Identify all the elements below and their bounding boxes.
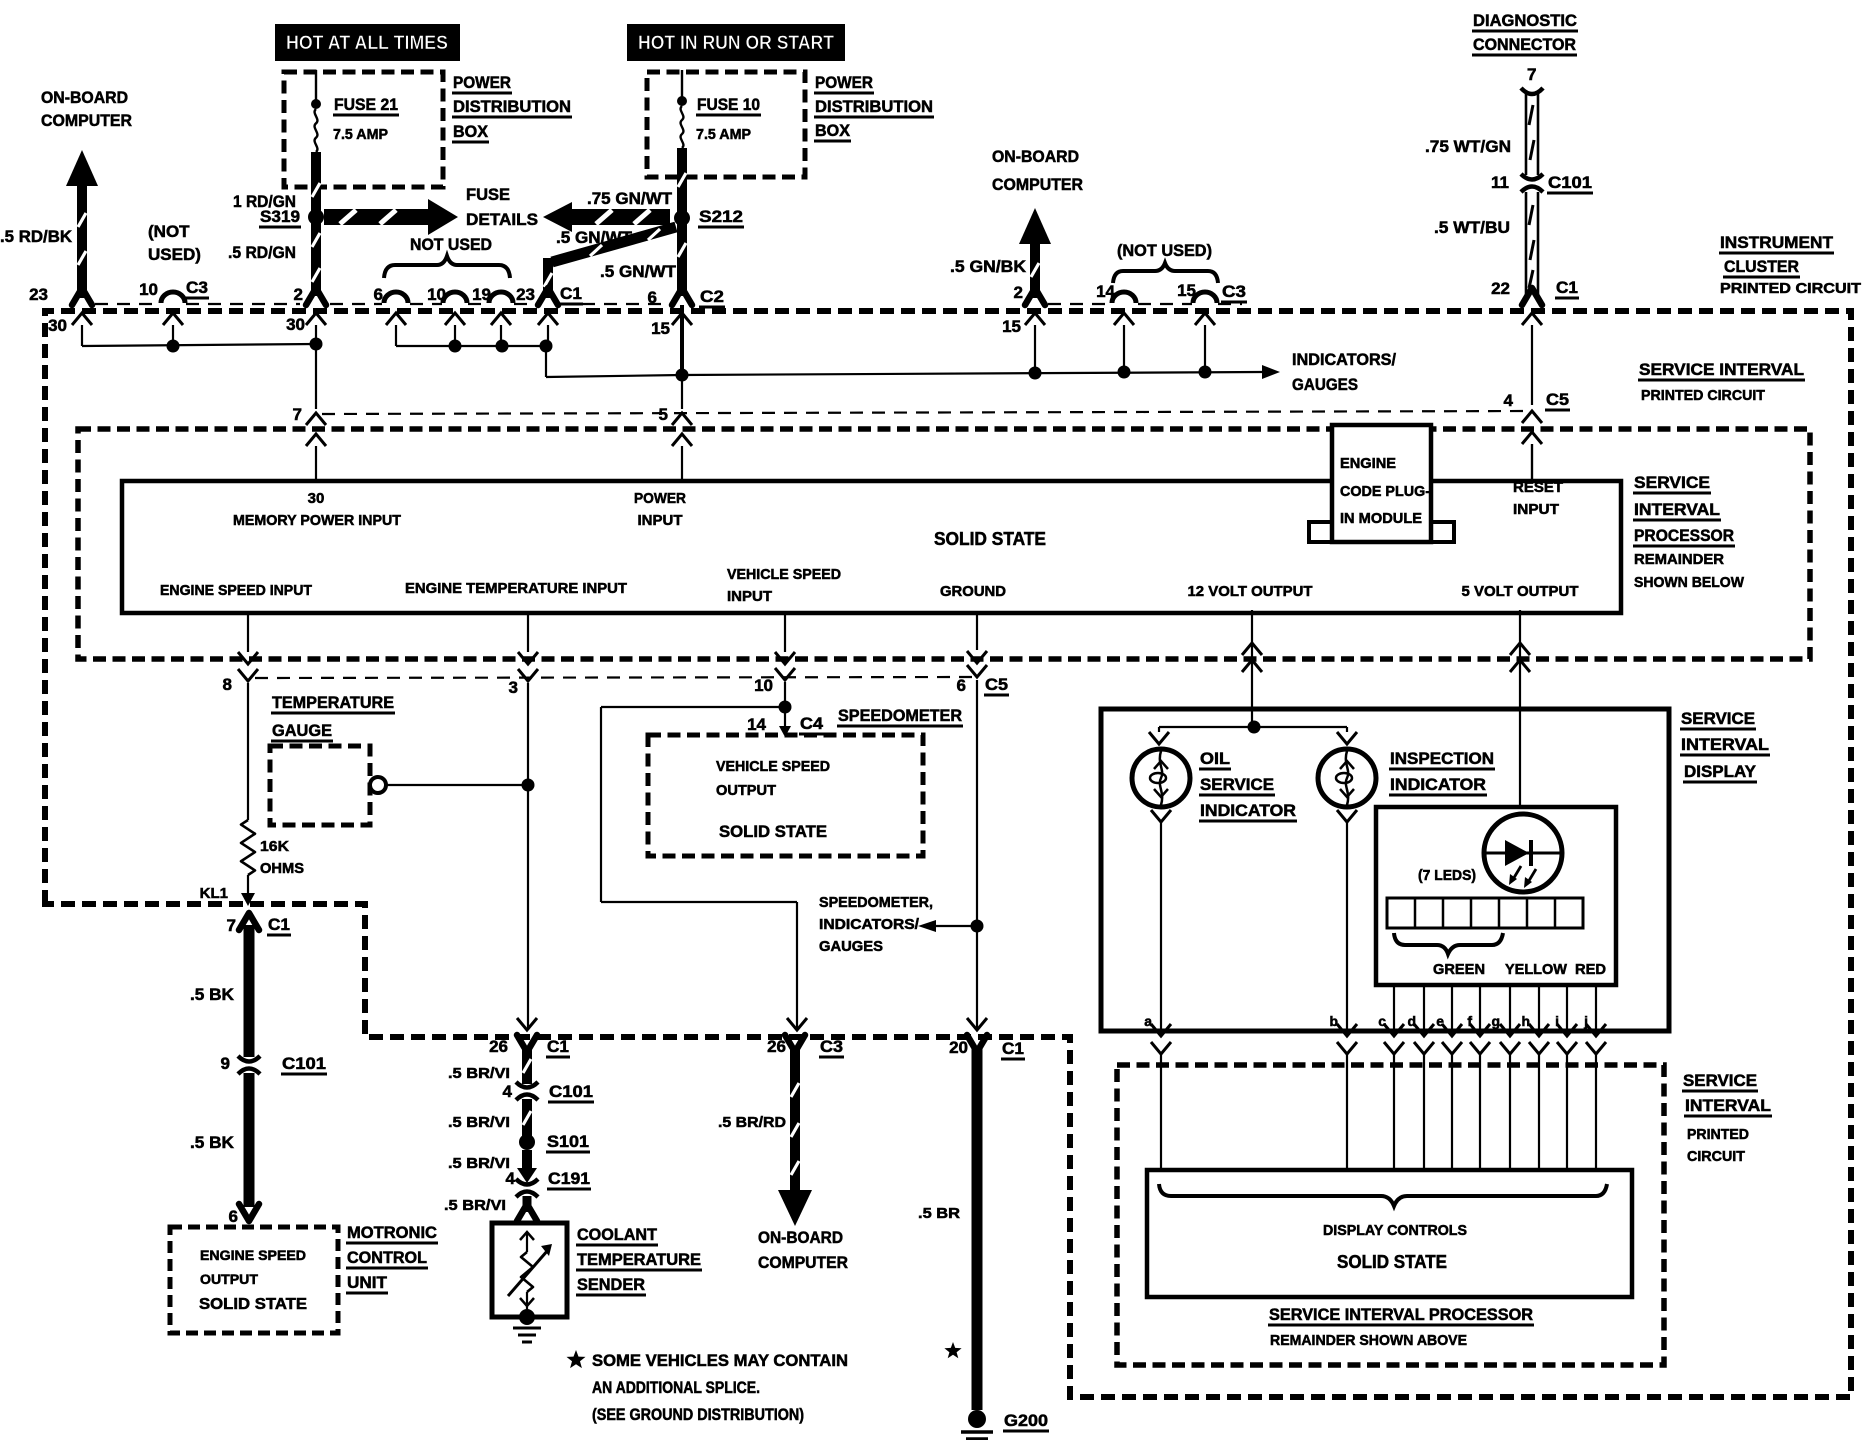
power distribution box (fuse 21) dashed box [284,72,443,187]
svg-text:(SEE GROUND DISTRIBUTION): (SEE GROUND DISTRIBUTION) [592,1405,804,1424]
junction to speedometer/indicators/gauges [971,920,984,933]
pin 4 C5 arrow into service interval processor [1522,411,1542,423]
svg-text:2: 2 [1014,283,1023,302]
pin 7 C1 flare [239,913,259,930]
pin 20 C1 flare (ground wire) [967,1035,987,1052]
service interval processor dashed border (lower) [1117,1065,1664,1365]
svg-text:23: 23 [29,285,48,304]
svg-text:GREEN: GREEN [1433,961,1485,978]
fuse 10 [681,70,683,100]
svg-text:BOX: BOX [453,122,489,141]
svg-text:7: 7 [293,405,302,424]
svg-text:FUSE 21: FUSE 21 [334,95,398,114]
svg-text:S212: S212 [699,207,743,226]
svg-text:PRINTED CIRCUIT: PRINTED CIRCUIT [1641,387,1765,404]
svg-text:ENGINE SPEED INPUT: ENGINE SPEED INPUT [160,582,312,599]
svg-text:14: 14 [747,715,766,734]
svg-text:4: 4 [1504,391,1514,410]
brace not used pins [384,256,510,278]
svg-text:d: d [1407,1013,1416,1029]
wire bus 30 left [82,344,316,346]
arrow into cluster pin 14 [1114,313,1134,325]
arrow into cluster pin 10 [445,313,465,325]
arrow into cluster pin 22 C1 [1522,313,1542,325]
pin 26 C1 flare (engine temperature) [517,1035,537,1052]
fuse 21 [315,70,317,102]
svg-text:.75 GN/WT: .75 GN/WT [587,189,673,208]
wire ground pin 6 C5 [976,613,978,650]
sender ground [519,1309,535,1325]
inspection indicator lamp [1318,749,1376,807]
svg-text:30: 30 [286,315,305,334]
svg-text:C5: C5 [985,675,1008,694]
svg-text:7.5 AMP: 7.5 AMP [696,126,751,143]
wire from pin 23 C1 bus down to 15 bus [545,346,547,377]
terminal KL1 arrowhead [241,893,255,906]
svg-text:FUSE 10: FUSE 10 [697,95,760,114]
svg-text:(NOT USED): (NOT USED) [1117,241,1212,260]
svg-text:22: 22 [1491,279,1510,298]
coolant temperature sender box [492,1223,567,1317]
svg-text:SOLID STATE: SOLID STATE [719,822,827,841]
svg-text:INTERVAL: INTERVAL [1634,500,1720,519]
svg-text:YELLOW: YELLOW [1505,961,1568,978]
svg-text:C4: C4 [800,714,824,733]
wire bus not-used pins [396,345,546,347]
svg-text:SOLID STATE: SOLID STATE [199,1296,307,1313]
wires c-j from LED display [1393,985,1395,1031]
svg-text:ENGINE: ENGINE [1340,455,1396,472]
svg-text:VEHICLE SPEED: VEHICLE SPEED [727,566,841,583]
svg-text:REMAINDER: REMAINDER [1634,551,1724,568]
svg-text:.5 RD/BK: .5 RD/BK [0,227,73,246]
pin 6 flare into motronic [239,1204,259,1221]
svg-text:7: 7 [1527,65,1536,84]
svg-text:SPEEDOMETER,: SPEEDOMETER, [819,894,933,911]
svg-text:C191: C191 [548,1169,590,1188]
svg-text:OUTPUT: OUTPUT [716,782,776,799]
splice S212 [674,210,690,226]
svg-text:HOT IN RUN OR START: HOT IN RUN OR START [638,33,834,54]
svg-text:SERVICE: SERVICE [1634,473,1710,492]
LED symbol circle [1484,814,1562,892]
fuse details arrow left [543,202,572,232]
wire gauge to engine temperature line [386,784,522,786]
svg-text:C3: C3 [1222,282,1246,301]
svg-text:ENGINE SPEED: ENGINE SPEED [200,1247,306,1263]
brace green LEDs [1394,933,1503,954]
svg-text:C1: C1 [547,1037,569,1056]
connector C101 pin 11 [1521,174,1543,192]
svg-text:SERVICE INTERVAL PROCESSOR: SERVICE INTERVAL PROCESSOR [1269,1305,1533,1324]
speedometer dashed box [648,735,923,856]
svg-text:C3: C3 [186,278,208,297]
svg-text:SERVICE: SERVICE [1683,1071,1757,1090]
wire .75 GN/WT from fuse 10 [677,148,687,296]
svg-text:PRINTED: PRINTED [1687,1126,1749,1143]
svg-text:.5 BK: .5 BK [190,985,235,1004]
svg-text:CLUSTER: CLUSTER [1724,257,1799,276]
connector C5 dashed cavity line (upper) [322,411,1532,414]
svg-text:GAUGES: GAUGES [1292,375,1358,394]
svg-text:ENGINE TEMPERATURE INPUT: ENGINE TEMPERATURE INPUT [405,580,627,597]
arrow into cluster pin 6 [386,313,406,325]
svg-text:j: j [1583,1013,1588,1029]
svg-text:11: 11 [1491,173,1509,192]
brace not used pins right [1113,263,1218,283]
svg-text:TEMPERATURE: TEMPERATURE [272,693,394,712]
svg-text:POWER: POWER [453,73,511,92]
svg-text:ON-BOARD: ON-BOARD [758,1228,843,1247]
svg-text:INPUT: INPUT [727,588,772,605]
svg-text:C3: C3 [820,1037,843,1056]
star note [567,1350,586,1368]
sender internal wire and variable resistor [520,1232,534,1240]
wire lamp b down [1346,822,1348,1031]
wire lamp feed bus [1159,726,1347,728]
gauge output terminal circle [370,777,386,793]
svg-text:FUSE: FUSE [466,185,510,204]
svg-text:(NOT: (NOT [148,222,190,241]
connector C101 pin 9 [236,1057,262,1072]
power distribution box (fuse 10) dashed box [647,72,805,177]
wire pin2/30 down to service interval pin 7 [315,344,317,409]
svg-text:26: 26 [767,1037,786,1056]
svg-text:.5 BR/RD: .5 BR/RD [718,1114,786,1131]
wire lamp a down [1160,822,1162,1031]
svg-text:INDICATOR: INDICATOR [1200,801,1296,820]
wire .5 GN/BK to on-board computer (arrow up) [1019,208,1051,244]
svg-text:REMAINDER SHOWN ABOVE: REMAINDER SHOWN ABOVE [1270,1332,1467,1349]
svg-text:g: g [1491,1013,1500,1029]
svg-text:COMPUTER: COMPUTER [992,175,1083,194]
svg-text:.5 BR/VI: .5 BR/VI [444,1197,506,1214]
svg-text:IN MODULE: IN MODULE [1340,510,1422,527]
svg-text:e: e [1436,1013,1444,1029]
svg-text:HOT AT ALL TIMES: HOT AT ALL TIMES [286,33,448,54]
svg-text:.5 GN/WT: .5 GN/WT [600,262,677,281]
svg-text:UNIT: UNIT [347,1273,388,1292]
svg-text:MEMORY POWER INPUT: MEMORY POWER INPUT [233,512,401,529]
svg-text:30: 30 [308,490,325,507]
svg-text:SENDER: SENDER [577,1275,645,1294]
wire .5 BR/VI with connectors to coolant sender [522,1048,532,1084]
svg-text:c: c [1378,1013,1386,1029]
svg-text:ON-BOARD: ON-BOARD [41,88,128,107]
LED diode symbol [1486,852,1560,855]
svg-text:SERVICE: SERVICE [1681,709,1755,728]
svg-text:15: 15 [651,319,670,338]
svg-text:.5 WT/BU: .5 WT/BU [1434,218,1510,237]
wire engine speed output pin 8 [247,613,249,652]
pin 2 flare (fuse 21 wire) [306,288,326,305]
svg-text:SOLID STATE: SOLID STATE [934,529,1046,549]
svg-text:b: b [1329,1013,1338,1029]
svg-text:SOLID STATE: SOLID STATE [1337,1252,1447,1272]
svg-text:INPUT: INPUT [638,512,683,529]
svg-text:6: 6 [229,1207,238,1226]
label box HOT IN RUN OR START [627,24,845,61]
svg-text:a: a [1144,1013,1152,1029]
splice S319 [308,209,324,225]
oil service indicator lamp [1132,749,1190,807]
svg-text:PRINTED CIRCUIT: PRINTED CIRCUIT [1720,280,1861,297]
svg-text:15: 15 [1177,281,1196,300]
wire 1 RD/GN from fuse 21 [311,152,321,296]
service interval display solid box [1101,709,1669,1031]
svg-text:C1: C1 [560,284,582,303]
svg-text:POWER: POWER [634,490,686,507]
svg-text:SPEEDOMETER: SPEEDOMETER [838,706,962,725]
svg-text:GAUGES: GAUGES [819,938,883,955]
svg-text:C1: C1 [268,915,290,934]
svg-text:BOX: BOX [815,121,851,140]
wire reset input [1531,444,1533,479]
connector C5 dashed cavity line (lower) [255,677,975,678]
service interval processor solid-state box [122,481,1621,613]
svg-text:INTERVAL: INTERVAL [1681,735,1769,754]
svg-text:ON-BOARD: ON-BOARD [992,147,1079,166]
pin 26 C3 flare (vehicle speed to on-board computer) [785,1035,805,1052]
wire vehicle speed pin 10 [784,613,786,652]
svg-text:INPUT: INPUT [1513,501,1559,518]
svg-text:.5 BR/VI: .5 BR/VI [448,1155,510,1172]
svg-text:KL1: KL1 [200,885,228,902]
svg-text:C101: C101 [549,1082,593,1101]
wire 12 volt output [1251,610,1253,727]
thin dashed cavity line segments [95,303,160,305]
svg-text:SHOWN BELOW: SHOWN BELOW [1634,574,1745,591]
svg-text:19: 19 [472,285,491,304]
svg-text:INTERVAL: INTERVAL [1685,1096,1771,1115]
display controls solid-state box [1147,1170,1632,1297]
arrow into cluster pin 2 (right) [1025,313,1045,325]
pin 2 flare (on-board computer 2) [1025,288,1045,305]
svg-text:DISPLAY CONTROLS: DISPLAY CONTROLS [1323,1222,1467,1239]
svg-text:RESET: RESET [1513,479,1563,496]
svg-text:INDICATOR: INDICATOR [1390,775,1486,794]
svg-text:.5 RD/GN: .5 RD/GN [228,243,296,262]
svg-text:S319: S319 [260,207,300,226]
pin 10 cavity bump [443,292,467,303]
svg-text:12 VOLT OUTPUT: 12 VOLT OUTPUT [1188,583,1313,600]
pin 14 C4 arrow into speedometer [784,707,786,728]
svg-text:.5 BR/VI: .5 BR/VI [448,1114,510,1131]
node pin 23 C3 flare [72,288,92,305]
svg-text:DISTRIBUTION: DISTRIBUTION [453,97,571,116]
splice S101 [519,1134,535,1150]
pin 19 cavity bump [489,292,513,303]
svg-text:i: i [1555,1013,1559,1029]
resistor 16K OHMS [241,820,255,875]
svg-text:POWER: POWER [815,73,873,92]
svg-text:4: 4 [503,1082,513,1101]
svg-text:30: 30 [48,316,67,335]
svg-text:CONNECTOR: CONNECTOR [1473,35,1576,54]
svg-text:INSPECTION: INSPECTION [1390,749,1494,768]
svg-text:.5 BR: .5 BR [918,1205,960,1222]
arrow into oil service indicator [1149,732,1169,744]
wire engine temperature pin 3 [527,613,529,652]
svg-text:SERVICE INTERVAL: SERVICE INTERVAL [1639,360,1804,379]
svg-text:C5: C5 [1546,390,1569,409]
svg-text:14: 14 [1096,282,1115,301]
svg-text:RED: RED [1575,961,1606,978]
temperature gauge dashed box [270,746,370,825]
diagnostic connector pin 7 bracket [1521,88,1543,94]
svg-text:9: 9 [221,1054,230,1073]
motronic control unit dashed box [170,1227,338,1333]
svg-text:23: 23 [516,285,535,304]
svg-text:.5 GN/WT: .5 GN/WT [556,228,633,247]
pin 6 C2 flare (fuse 10 wire) [672,288,692,305]
svg-text:USED): USED) [148,245,201,264]
svg-text:6: 6 [374,285,383,304]
svg-text:6: 6 [957,676,966,695]
svg-text:C1: C1 [1002,1039,1024,1058]
wire .5 BK heavy [244,925,255,1061]
engine code plug-in module [1309,522,1332,542]
svg-text:PROCESSOR: PROCESSOR [1634,526,1734,545]
svg-text:3: 3 [509,678,518,697]
svg-text:6: 6 [648,288,657,307]
svg-text:C2: C2 [700,287,724,306]
wire bus 15 to indicators/gauges arrow [676,369,689,382]
svg-text:(7 LEDS): (7 LEDS) [1418,867,1476,884]
svg-text:8: 8 [223,675,232,694]
svg-text:10: 10 [139,280,158,299]
svg-text:.5 GN/BK: .5 GN/BK [950,257,1027,276]
svg-text:C101: C101 [1548,173,1592,192]
arrow into cluster pin 10 C3 [163,313,183,325]
pin 7 arrow into service interval processor [306,413,326,425]
pin 22 C1 flare (diagnostic wire) [1522,288,1542,305]
svg-text:OUTPUT: OUTPUT [200,1271,258,1287]
wire .5 GN/WT diagonal from S212 to C1 pin 23 [552,227,676,262]
svg-text:DIAGNOSTIC: DIAGNOSTIC [1473,11,1577,30]
arrows a-j through display box bottom [1151,1024,1171,1036]
svg-text:INDICATORS/: INDICATORS/ [819,916,920,933]
svg-text:TEMPERATURE: TEMPERATURE [577,1250,701,1269]
svg-text:INSTRUMENT: INSTRUMENT [1720,233,1834,252]
svg-text:SOME VEHICLES MAY CONTAIN: SOME VEHICLES MAY CONTAIN [592,1351,848,1370]
LED bar display 7 segments [1387,898,1583,928]
svg-text:15: 15 [1002,317,1021,336]
svg-text:16K: 16K [260,838,289,855]
pin 15 cavity bump [1193,292,1217,303]
service interval processor dashed border (upper) [78,429,1810,659]
arrow into cluster pin 19 [491,313,511,325]
svg-text:OHMS: OHMS [260,860,304,877]
svg-text:CODE PLUG-: CODE PLUG- [1340,483,1430,500]
wire vehicle speed loop around speedometer [601,706,785,708]
svg-text:.5 BK: .5 BK [190,1133,235,1152]
svg-text:2: 2 [294,285,303,304]
svg-text:MOTRONIC: MOTRONIC [347,1223,437,1242]
wire .5 RD/BK to on-board computer (arrow up) [66,150,98,186]
label box HOT AT ALL TIMES [275,24,460,61]
wire .5 BR/RD arrow down to on-board computer [790,1048,800,1192]
fuse details arrow right [324,209,428,225]
arrow into inspection indicator [1337,732,1357,744]
svg-text:CIRCUIT: CIRCUIT [1687,1148,1745,1165]
svg-text:AN ADDITIONAL SPLICE.: AN ADDITIONAL SPLICE. [592,1378,760,1397]
svg-text:DISTRIBUTION: DISTRIBUTION [815,97,933,116]
pin 5 arrow into service interval processor [672,413,692,425]
svg-text:20: 20 [949,1038,968,1057]
svg-text:10: 10 [427,285,446,304]
svg-text:VEHICLE SPEED: VEHICLE SPEED [716,758,830,775]
svg-text:26: 26 [489,1037,508,1056]
svg-text:C101: C101 [282,1054,326,1073]
svg-text:INDICATORS/: INDICATORS/ [1292,350,1396,369]
svg-text:CONTROL: CONTROL [347,1248,427,1267]
pin 14 cavity bump [1112,292,1136,303]
brace display controls inputs [1159,1184,1607,1206]
wire .5 WT/BU (outlined) [1525,192,1528,296]
svg-text:4: 4 [506,1169,516,1188]
svg-text:COMPUTER: COMPUTER [758,1253,848,1272]
arrow into cluster pin 2 [306,313,326,325]
svg-text:DISPLAY: DISPLAY [1684,762,1757,781]
svg-text:DETAILS: DETAILS [466,210,538,229]
pin 23 C1 flare [538,288,558,305]
svg-text:OIL: OIL [1200,749,1230,768]
svg-text:GAUGE: GAUGE [272,721,332,740]
svg-text:7: 7 [227,916,236,935]
svg-text:10: 10 [754,676,773,695]
arrow into cluster pin 6 C2 [672,313,692,325]
arrow into cluster pin 23 [72,313,92,325]
pin 10 C3 cavity bump [161,292,185,303]
LED display inner box [1376,807,1616,985]
wire .75 WT/GN (outlined) [1525,93,1528,175]
wire .5 BR heavy to ground G200 [972,1048,983,1410]
svg-text:5: 5 [659,405,668,424]
pin 6 cavity bump [384,292,408,303]
arrow into cluster pin 23 C1 [538,313,558,325]
svg-text:.5 BR/VI: .5 BR/VI [448,1065,510,1082]
svg-text:S101: S101 [547,1132,589,1151]
svg-text:GROUND: GROUND [940,583,1006,600]
arrow into cluster pin 15 [1195,313,1215,325]
wire pin C2 down to service interval pin 5 [681,381,683,409]
svg-text:h: h [1521,1013,1530,1029]
svg-text:SERVICE: SERVICE [1200,775,1274,794]
svg-text:f: f [1467,1013,1472,1029]
svg-text:NOT USED: NOT USED [410,235,492,254]
svg-text:G200: G200 [1004,1411,1048,1430]
wire 5 volt output [1519,610,1521,807]
svg-text:C1: C1 [1556,278,1578,297]
LED emission arrows [1512,866,1521,881]
svg-text:7.5 AMP: 7.5 AMP [333,126,388,143]
svg-text:.75 WT/GN: .75 WT/GN [1425,137,1511,156]
svg-text:5 VOLT OUTPUT: 5 VOLT OUTPUT [1462,583,1579,600]
instrument cluster printed circuit dashed border [45,311,1851,1397]
svg-text:COOLANT: COOLANT [577,1225,658,1244]
ground G200 [968,1410,986,1428]
svg-text:COMPUTER: COMPUTER [41,111,132,130]
splice marker star [944,1342,961,1358]
